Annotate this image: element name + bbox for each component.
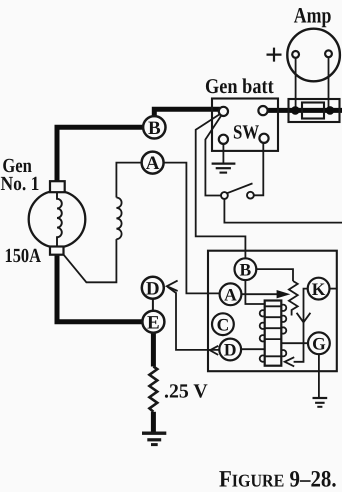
fuse block outer (289, 99, 340, 122)
SW terminal bottom-right (259, 134, 268, 143)
SW terminal top-right (258, 106, 267, 115)
wire thick: generator bottom down and right to node E (57, 252, 143, 322)
node D circle (142, 277, 164, 299)
svg-text:D: D (224, 340, 237, 360)
solenoid loops left (260, 310, 266, 316)
svg-text:.25 V: .25 V (164, 381, 208, 403)
regulator node K (308, 278, 330, 300)
solenoid winding bars (265, 306, 282, 356)
resistor .25V zigzag (149, 367, 157, 412)
solenoid loops right (280, 305, 286, 311)
wire thick: SW right terminal through fuse block to right edge (263, 108, 342, 113)
wire: ammeter left terminal down to fuse (295, 58, 297, 107)
wire: ammeter right terminal down to fuse (328, 57, 330, 107)
svg-text:A: A (224, 285, 237, 305)
wire: meter A left to field coil top (116, 163, 141, 198)
ammeter circle (287, 29, 340, 82)
regulator node A (220, 283, 242, 305)
SW box (212, 99, 278, 151)
svg-text:B: B (240, 259, 252, 279)
svg-text:K: K (312, 279, 326, 299)
wire thick: resistor to ground (151, 412, 156, 433)
wire thick: node B up and right to SW box terminal (154, 109, 220, 117)
regulator node B (235, 258, 257, 280)
generator armature coil (57, 192, 62, 246)
arrowhead into node D (167, 281, 178, 291)
regulator B to rheostat (256, 269, 293, 281)
generator brush bottom (50, 247, 64, 255)
G line left to coil (281, 342, 308, 344)
node D-E link (152, 299, 154, 311)
ground (below regulator) (313, 397, 328, 399)
node B circle (143, 116, 165, 138)
generator brush top (50, 181, 65, 192)
plus sign (267, 48, 282, 62)
svg-text:150A: 150A (5, 245, 42, 267)
knife switch right contact (247, 192, 254, 199)
K line right to box edge (329, 288, 336, 290)
regulator node G (308, 332, 330, 354)
wire: meter A right, down, to regulator A (164, 163, 220, 294)
arrowhead at regulator D (210, 346, 218, 355)
rheostat zigzag (289, 281, 298, 316)
ammeter terminal left (292, 51, 299, 58)
G down to ground (318, 354, 320, 397)
SW terminal top-left (219, 107, 228, 116)
ground (below SW box) (212, 162, 236, 164)
node A circle (142, 152, 164, 174)
wire: regulator D out, left, up, arrow into D (167, 287, 219, 350)
regulator A wiper line (242, 293, 278, 295)
svg-text:No. 1: No. 1 (1, 173, 40, 195)
svg-text:G: G (312, 334, 326, 354)
svg-text:FIGURE 9–28.: FIGURE 9–28. (219, 466, 337, 492)
wire: knife switch right up to SW box inner terminal (254, 143, 263, 196)
switch blade (227, 183, 253, 193)
svg-text:B: B (148, 118, 161, 139)
wiper filled arrowhead (277, 290, 291, 298)
wire: SW terminal slant to line down to regulator B (196, 112, 246, 258)
regulator node C (212, 313, 234, 335)
regulator B tail to coil (245, 280, 264, 304)
knife switch left contact (221, 192, 228, 199)
node E circle (142, 311, 164, 333)
left arrowhead into coil bottom (285, 357, 295, 366)
SW terminal bottom-left (219, 135, 228, 144)
generator circle (29, 191, 86, 248)
ammeter terminal right (325, 50, 332, 57)
wire thick: node E down to resistor (151, 332, 156, 367)
field coil (4 loops) (116, 198, 121, 240)
fuse dot right (326, 106, 335, 115)
svg-text:C: C (217, 314, 230, 334)
svg-text:A: A (146, 153, 160, 174)
wire: SW terminal slant to knife switch left (205, 113, 222, 195)
K line left and down with arrow (294, 289, 308, 362)
svg-text:E: E (147, 312, 160, 333)
wire: knife switch left down and right to edge (224, 199, 342, 223)
svg-text:D: D (146, 278, 160, 299)
svg-text:SW: SW (233, 122, 259, 144)
regulator node D (219, 339, 241, 361)
fuse block inner (302, 103, 324, 119)
solenoid coil core (265, 301, 282, 366)
regulator box (208, 251, 337, 372)
wire: field coil bottom to generator bottom brush (64, 239, 117, 282)
svg-text:Gen batt: Gen batt (205, 74, 274, 98)
wire thick: generator top to node B corner (57, 127, 143, 187)
svg-text:Amp: Amp (294, 3, 332, 28)
regulator D to coil (241, 348, 265, 350)
down arrowhead on K line (297, 313, 311, 323)
fuse dot left (291, 106, 300, 115)
ground (below resistor) (142, 432, 166, 435)
wire: SW inner-left terminal to ground (222, 144, 224, 164)
